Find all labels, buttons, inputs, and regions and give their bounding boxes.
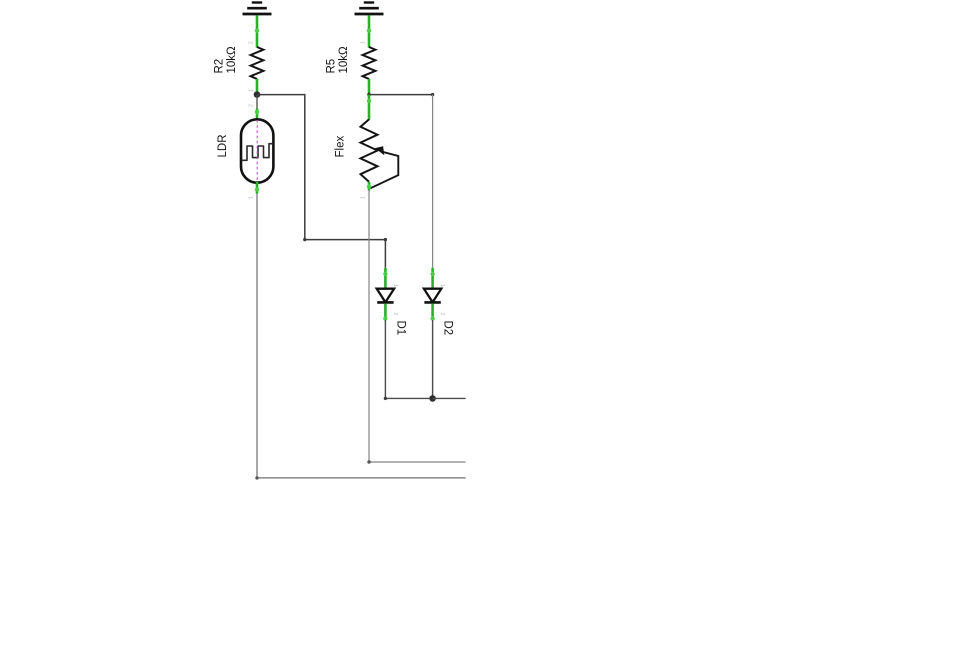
svg-text:1: 1: [392, 284, 398, 287]
LDR: [217, 95, 273, 199]
resistor R5: [326, 15, 376, 94]
wire D2 cathode down: [432, 320, 434, 398]
svg-text:R2: R2: [214, 59, 226, 74]
wire ADC node to ESP ADC pin: [433, 397, 466, 399]
flex sensor: [335, 95, 399, 199]
ground symbol above R5: [355, 3, 384, 15]
diode D2: [424, 268, 454, 335]
svg-text:1: 1: [249, 196, 255, 199]
svg-text:1: 1: [361, 41, 367, 44]
wire corner dots: [303, 238, 306, 241]
wire node A to D1 anode: [257, 95, 385, 268]
wire node B to D2 vertical feed: [369, 94, 433, 96]
svg-text:2: 2: [392, 313, 398, 316]
svg-text:LDR: LDR: [217, 134, 229, 157]
node ADC junction: [429, 395, 436, 402]
wire flex wiper to ESP GPIO12: [369, 191, 466, 463]
svg-text:1: 1: [361, 196, 367, 199]
diode D1: [377, 268, 407, 335]
wire D1 cathode to ADC node: [385, 320, 432, 398]
svg-text:2: 2: [249, 41, 255, 44]
resistor R2: [214, 15, 264, 94]
svg-text:2: 2: [439, 313, 445, 316]
wire LDR cathode to ESP GPIO13: [257, 194, 466, 478]
svg-text:Flex: Flex: [335, 136, 347, 158]
svg-text:10kΩ: 10kΩ: [226, 46, 238, 74]
node A junction (R2 / LDR / wire to D1): [254, 91, 261, 98]
svg-text:D2: D2: [442, 321, 454, 336]
svg-text:1: 1: [439, 284, 445, 287]
svg-text:10kΩ: 10kΩ: [338, 46, 350, 74]
svg-text:R5: R5: [326, 59, 338, 74]
node B junction (R5 / Flex / wire to D2): [367, 93, 371, 97]
ground symbol above R2: [243, 3, 272, 15]
svg-text:1: 1: [249, 89, 255, 92]
svg-text:2: 2: [249, 104, 255, 107]
svg-text:D1: D1: [395, 321, 407, 336]
